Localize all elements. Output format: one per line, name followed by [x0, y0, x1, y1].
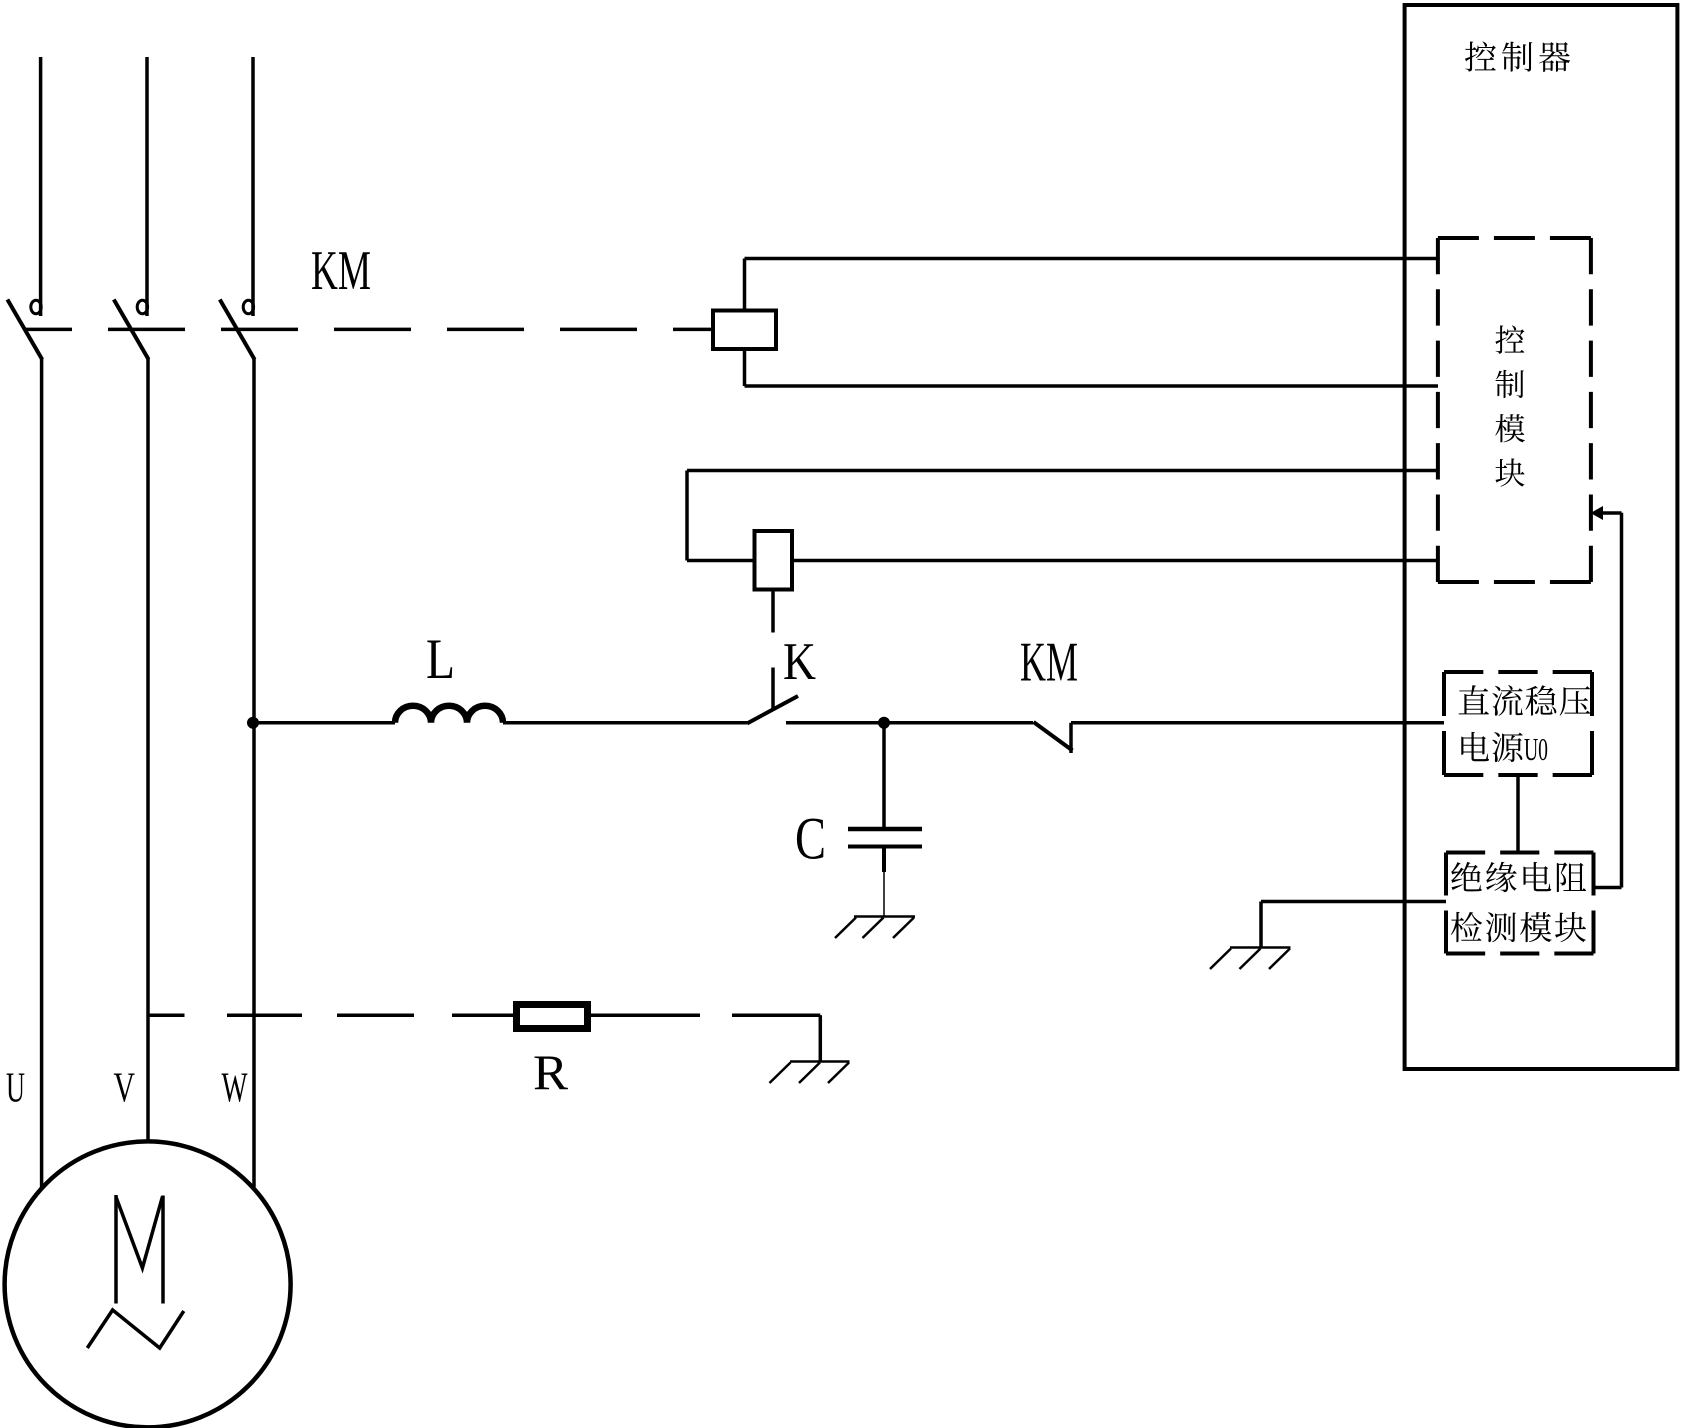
- svg-text:V: V: [114, 1066, 136, 1112]
- svg-text:KM: KM: [311, 240, 371, 302]
- svg-text:W: W: [222, 1066, 248, 1112]
- svg-text:K: K: [783, 633, 816, 691]
- svg-text:R: R: [533, 1044, 569, 1100]
- svg-text:L: L: [426, 628, 455, 691]
- svg-text:U0: U0: [1524, 731, 1548, 767]
- svg-text:C: C: [795, 806, 826, 872]
- svg-text:KM: KM: [1020, 632, 1078, 694]
- svg-text:U: U: [6, 1066, 25, 1112]
